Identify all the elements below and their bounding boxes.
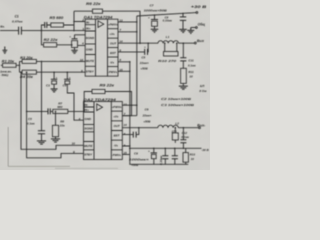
resistor R3	[22, 59, 36, 63]
ground under R8	[51, 139, 60, 142]
wire stby line down	[26, 71, 28, 73]
wire input H1	[0, 30, 85, 32]
node bootstrap1 junction	[147, 42, 149, 44]
resistor R8	[52, 125, 58, 136]
node C2b junction	[71, 44, 73, 46]
capacitor C10a	[165, 148, 167, 150]
capacitor C4	[67, 71, 69, 73]
resistor R2	[44, 43, 57, 47]
wire R2 riser	[41, 31, 43, 45]
inductor L1	[158, 41, 178, 44]
wire R7 chain	[26, 111, 28, 113]
resistor R9	[92, 89, 105, 93]
ground under C5	[37, 141, 46, 144]
ground under R11	[179, 86, 188, 89]
rail +Vs	[136, 16, 138, 116]
wire OUT1	[118, 42, 195, 44]
capacitor C9	[153, 148, 155, 150]
capacitor C5b bootstrap	[118, 43, 148, 52]
page border artifact	[8, 127, 70, 166]
ground near input	[2, 47, 7, 54]
wire R9 left to IN-	[84, 92, 92, 105]
node IN- junction	[73, 21, 75, 23]
terminal Общ	[191, 27, 196, 29]
wire mute line down	[20, 71, 22, 73]
capacitor C3	[53, 71, 55, 73]
wire OUT2	[122, 127, 198, 129]
scan noise overlay	[0, 0, 210, 170]
capacitor C8	[182, 13, 184, 15]
wire R9 right	[105, 92, 132, 116]
capacitor C2 series	[45, 22, 47, 28]
paper background	[0, 0, 210, 170]
resistor R4	[22, 70, 36, 74]
wire R2 to pin4	[57, 44, 85, 47]
ground under C7	[151, 29, 159, 32]
zobel C11 R11	[183, 42, 185, 44]
resistor R10	[164, 52, 179, 57]
wire node vertical left	[19, 61, 21, 72]
resistor R6	[93, 9, 103, 13]
capacitor C2b electrolytic	[72, 38, 78, 40]
zobel C12 R13	[183, 127, 185, 129]
bottom bus	[130, 154, 188, 164]
capacitor C1	[19, 27, 22, 35]
ground Общ	[187, 28, 194, 34]
wire mute1	[20, 60, 86, 62]
inductor L2	[158, 125, 178, 128]
capacitor C5 mute	[41, 111, 43, 113]
capacitor C6s series	[48, 108, 50, 114]
capacitor C10b	[174, 148, 176, 150]
node mute C5 junction	[41, 61, 43, 63]
ground under C8	[179, 29, 187, 32]
resistor R7	[53, 109, 68, 113]
wire R6 feedback top	[74, 11, 140, 43]
capacitor C7	[154, 14, 156, 16]
rail -Vs	[118, 62, 130, 72]
resistor R5	[51, 23, 64, 27]
resistor R1	[3, 63, 17, 67]
wire -30V	[130, 147, 202, 149]
capacitor C6b bootstrap	[122, 128, 139, 135]
wire +30V top	[137, 13, 197, 16]
scan blotch overlay	[0, 0, 210, 170]
ground under C2b	[71, 50, 77, 53]
node feedback out junction	[139, 42, 141, 44]
ground under C3	[51, 89, 58, 92]
wire R5 branch	[41, 22, 85, 31]
node A junction	[41, 30, 43, 32]
wire stby1	[20, 71, 86, 73]
